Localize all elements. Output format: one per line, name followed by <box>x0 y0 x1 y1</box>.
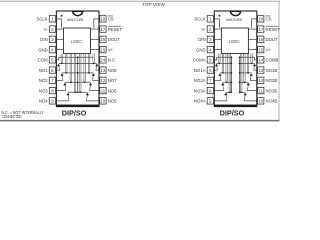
wire: SCLK (pin 1) into logic block <box>214 19 219 28</box>
pin 1 box (SCLK, left side of U1) <box>49 16 55 22</box>
wire: GND (pin 4) stub into logic block <box>56 49 63 51</box>
svg-text:CS: CS <box>266 17 272 22</box>
package U1 thick bottom edge <box>56 105 100 107</box>
IC package U2 MAX350 body outline <box>214 11 256 105</box>
svg-text:10: 10 <box>101 99 106 104</box>
wire: pin stub NO4 <box>56 100 69 102</box>
package U2 thick bottom edge <box>214 105 257 107</box>
svg-text:NO7: NO7 <box>108 78 117 83</box>
svg-text:TOP VIEW: TOP VIEW <box>142 2 165 8</box>
switch arrowhead (triangle) NO1B <box>253 64 256 67</box>
svg-text:12: 12 <box>101 78 106 83</box>
figure top border rule <box>0 0 280 2</box>
switch arrowhead (triangle) NO6 <box>89 83 92 86</box>
svg-text:14: 14 <box>101 58 106 63</box>
wire: DIN (pin 3) stub into logic block <box>214 38 221 40</box>
pin 9 box (NO4A, left side of U2) <box>207 98 213 104</box>
wire: pin stub NO1 <box>56 69 59 71</box>
wire: switch output rail row 2 (NO2/NO7) <box>62 72 93 74</box>
figure right border rule <box>278 1 280 121</box>
switch arm NO4B <box>244 95 245 101</box>
svg-text:NO5: NO5 <box>108 99 117 104</box>
svg-text:NO3B: NO3B <box>266 88 278 93</box>
svg-text:CONNECTED: CONNECTED <box>1 114 21 119</box>
svg-text:DIN: DIN <box>40 37 47 42</box>
switch arm NO2A <box>220 75 221 80</box>
svg-text:V-: V- <box>44 27 49 32</box>
wire: pin stub NO1B <box>254 69 257 71</box>
switch arm NO1A <box>217 66 218 70</box>
svg-text:NO3: NO3 <box>39 88 48 93</box>
pin 16 box (DOUT, right side of U2) <box>258 36 264 42</box>
switch arrowhead (triangle) NO3A <box>221 83 224 86</box>
pin 18 box (CS, right side of U1) <box>100 16 106 22</box>
pin 15 box (V+, right side of U1) <box>100 46 106 52</box>
wire: pin stub NO3B <box>247 90 256 92</box>
pin 11 box (NO6, right side of U1) <box>100 87 106 93</box>
svg-text:DOUT: DOUT <box>266 37 279 42</box>
switch arm NO3A <box>223 85 224 91</box>
svg-text:15: 15 <box>101 47 106 52</box>
svg-text:NO2B: NO2B <box>266 78 278 83</box>
svg-text:DOUT: DOUT <box>108 37 121 42</box>
svg-text:18: 18 <box>258 17 263 22</box>
svg-text:17: 17 <box>258 27 263 32</box>
wire: DOUT stub into logic block <box>248 38 256 40</box>
switch arrowhead (triangle) NO3B <box>247 83 250 86</box>
svg-text:V+: V+ <box>108 47 114 52</box>
wire: switch rail row 4 side B (NO4B) <box>240 91 246 93</box>
logic block of U2 <box>221 28 248 54</box>
svg-text:NO8: NO8 <box>108 68 117 73</box>
pin 7 box (NO2, left side of U1) <box>49 77 55 83</box>
package U2 top notch (pin-1 end indicator) <box>231 11 241 15</box>
svg-text:SCLK: SCLK <box>194 17 205 22</box>
junction dots <box>219 56 253 93</box>
switch arrowhead (triangle) NO1A <box>215 64 218 67</box>
pin 13 box (NO8, right side of U1) <box>100 67 106 73</box>
pin 14 box (N.C., right side of U1) <box>100 57 106 63</box>
wire: V- (pin 2) stub into logic block <box>214 28 221 30</box>
pin 4 box (GND, left side of U2) <box>207 46 213 52</box>
switch arm NO4A <box>226 95 227 101</box>
svg-text:DIP/SO: DIP/SO <box>220 110 245 117</box>
pin 7 box (NO2A, left side of U2) <box>207 77 213 83</box>
switch arm NO2B <box>250 75 251 80</box>
switch arm NO3 <box>65 85 66 91</box>
svg-text:V-: V- <box>202 27 207 32</box>
switch arrowhead (triangle) NO2A <box>218 73 221 76</box>
svg-text:NO1A: NO1A <box>194 68 206 73</box>
wire: pin stub NO2 <box>56 79 63 81</box>
svg-text:NO4A: NO4A <box>194 99 206 104</box>
svg-text:11: 11 <box>259 88 264 93</box>
switch arrowhead (triangle) NO3 <box>63 83 66 86</box>
pin 18 box (CS, right side of U2) <box>258 16 264 22</box>
pin 14 box (COMB, right side of U2) <box>258 57 264 63</box>
svg-text:RESET: RESET <box>266 27 281 32</box>
wire: COMB (pin 14) to bus B <box>240 57 257 60</box>
svg-text:NO2A: NO2A <box>194 78 206 83</box>
logic block of U1 <box>64 28 91 54</box>
wire: switch rail row 3 side A (NO3A) <box>223 81 232 83</box>
switch arm NO4 <box>68 95 69 101</box>
overbar for active-low pin CS <box>108 15 113 17</box>
switch arrowhead (triangle) NO8 <box>95 64 98 67</box>
wire: pin stub NO2B <box>250 79 257 81</box>
pin 5 box (COMA, left side of U2) <box>207 57 213 63</box>
wire: bus B vertical collector line <box>239 57 241 92</box>
svg-text:COMB: COMB <box>266 58 279 63</box>
wire: SCLK (pin 1) into logic block <box>56 19 61 28</box>
svg-text:16: 16 <box>101 37 106 42</box>
switch arm NO7 <box>92 75 93 80</box>
switch arrowhead (triangle) NO1 <box>57 64 60 67</box>
control lines from logic block to switches <box>219 54 253 93</box>
wire: pin stub NO4A <box>214 100 227 102</box>
wire: pin stub NO5 <box>86 100 99 102</box>
svg-text:11: 11 <box>101 88 106 93</box>
svg-text:14: 14 <box>258 58 263 63</box>
svg-text:NO1: NO1 <box>39 68 48 73</box>
pin 6 box (NO1, left side of U1) <box>49 67 55 73</box>
wire: CS (pin 18) into logic block <box>252 19 257 28</box>
svg-text:NO6: NO6 <box>108 88 117 93</box>
svg-text:COM: COM <box>38 58 48 63</box>
svg-text:N.C.: N.C. <box>108 58 117 63</box>
switch arrowhead (triangle) NO2B <box>250 73 253 76</box>
wire: switch rail row 1 side A (NO1A) <box>217 62 232 64</box>
wire: pin stub NO6 <box>90 90 100 92</box>
pin 17 box (RESET, right side of U1) <box>100 26 106 32</box>
svg-text:17: 17 <box>101 27 106 32</box>
wire: V+ stub into logic block <box>91 49 100 51</box>
wire: DIN (pin 3) stub into logic block <box>56 38 63 40</box>
pin 4 box (GND, left side of U1) <box>49 46 55 52</box>
wire: V+ stub into logic block <box>248 49 256 51</box>
svg-text:GND: GND <box>38 47 48 52</box>
svg-text:GND: GND <box>196 47 206 52</box>
wire: pin stub NO3A <box>214 90 224 92</box>
switch arrowhead (triangle) NO4A <box>224 93 227 96</box>
wire: COMA (pin 5) to bus A <box>214 57 231 60</box>
switch arm NO1 <box>59 66 60 70</box>
wire: RESET stub into logic block <box>248 28 256 30</box>
wire: switch output rail row 1 (NO1/NO8) <box>59 62 97 64</box>
wire: switch output rail row 4 (NO4/NO5) <box>68 91 87 93</box>
svg-text:15: 15 <box>258 47 263 52</box>
svg-text:NO4B: NO4B <box>266 99 278 104</box>
svg-text:MAX350: MAX350 <box>226 17 243 22</box>
pin 5 box (COM, left side of U1) <box>49 57 55 63</box>
pin 1 box (SCLK, left side of U2) <box>207 16 213 22</box>
svg-text:18: 18 <box>101 17 106 22</box>
svg-text:SCLK: SCLK <box>36 17 47 22</box>
pin 8 box (NO3A, left side of U2) <box>207 87 213 93</box>
pin 13 box (NO1B, right side of U2) <box>258 67 264 73</box>
control lines from logic block to switches <box>61 54 94 93</box>
wire: pin stub NO3 <box>56 90 66 92</box>
IC package U1 MAX349 body outline <box>56 11 99 105</box>
svg-text:RESET: RESET <box>108 27 123 32</box>
wire: switch output rail row 3 (NO3/NO6) <box>65 81 91 83</box>
svg-text:NO2: NO2 <box>39 78 48 83</box>
svg-text:CS: CS <box>108 17 114 22</box>
switch arrowhead (triangle) NO2 <box>60 73 63 76</box>
wire: DOUT stub into logic block <box>91 38 100 40</box>
switch arm NO3B <box>247 85 248 91</box>
pin 10 box (NO4B, right side of U2) <box>258 98 264 104</box>
pin 16 box (DOUT, right side of U1) <box>100 36 106 42</box>
pin 11 box (NO3B, right side of U2) <box>258 87 264 93</box>
wire: switch rail row 2 side A (NO2A) <box>220 72 232 74</box>
package U1 top notch (pin-1 end indicator) <box>73 11 83 15</box>
junction dots <box>61 56 94 93</box>
svg-text:COMA: COMA <box>193 58 206 63</box>
wire: pin stub NO8 <box>96 69 99 71</box>
overbar for active-low pin RESET <box>108 25 121 27</box>
switch arm NO8 <box>96 66 97 70</box>
svg-text:13: 13 <box>258 68 263 73</box>
pin 8 box (NO3, left side of U1) <box>49 87 55 93</box>
svg-text:LOGIC: LOGIC <box>71 39 82 44</box>
pin 17 box (RESET, right side of U2) <box>258 26 264 32</box>
switch arrowhead (triangle) NO7 <box>92 73 95 76</box>
overbar for active-low pin CS <box>266 15 271 17</box>
wire: V- (pin 2) stub into logic block <box>56 28 63 30</box>
wire: switch rail row 1 side B (NO1B) <box>240 62 255 64</box>
wire: CS (pin 18) into logic block <box>94 19 99 28</box>
svg-text:16: 16 <box>258 37 263 42</box>
wire: switch rail row 2 side B (NO2B) <box>240 72 252 74</box>
pin 12 box (NO7, right side of U1) <box>100 77 106 83</box>
pin 10 box (NO5, right side of U1) <box>100 98 106 104</box>
switch arm NO1B <box>254 66 255 70</box>
svg-text:V+: V+ <box>266 47 272 52</box>
switch arrowhead (triangle) NO4 <box>66 93 69 96</box>
wire: bus A vertical collector line <box>230 57 232 92</box>
wire: pin stub NO2A <box>214 79 221 81</box>
package U2 pin-1 dot marker <box>219 15 221 17</box>
switch arm NO6 <box>90 85 91 91</box>
wire: GND (pin 4) stub into logic block <box>214 49 221 51</box>
pin 2 box (V-, left side of U1) <box>49 26 55 32</box>
wire: pin stub NO1A <box>214 69 217 71</box>
figure bottom border rule <box>0 120 280 122</box>
switch arm NO2 <box>62 75 63 80</box>
pin 6 box (NO1A, left side of U2) <box>207 67 213 73</box>
overbar for active-low pin RESET <box>266 25 279 27</box>
svg-text:10: 10 <box>258 99 263 104</box>
pin 2 box (V-, left side of U2) <box>207 26 213 32</box>
svg-text:12: 12 <box>258 78 263 83</box>
svg-text:MAX349: MAX349 <box>67 17 84 22</box>
wire: COM (pin 5) to internal common bus <box>56 57 93 60</box>
svg-text:DIP/SO: DIP/SO <box>62 110 87 117</box>
svg-text:NO1B: NO1B <box>266 68 278 73</box>
switch arrowhead (triangle) NO5 <box>86 93 89 96</box>
wire: RESET stub into logic block <box>91 28 100 30</box>
pin 3 box (DIN, left side of U1) <box>49 36 55 42</box>
package U1 pin-1 dot marker <box>61 15 63 17</box>
svg-text:LOGIC: LOGIC <box>229 39 240 44</box>
wire: switch rail row 4 side A (NO4A) <box>226 91 232 93</box>
wire: switch rail row 3 side B (NO3B) <box>240 81 249 83</box>
pin 12 box (NO2B, right side of U2) <box>258 77 264 83</box>
pin 15 box (V+, right side of U2) <box>258 46 264 52</box>
wire: common vertical collector line <box>77 57 79 92</box>
pin 9 box (NO4, left side of U1) <box>49 98 55 104</box>
wire: pin stub NO7 <box>92 79 99 81</box>
svg-text:NO4: NO4 <box>39 99 48 104</box>
pin 3 box (DIN, left side of U2) <box>207 36 213 42</box>
switch arrowhead (triangle) NO4B <box>244 93 247 96</box>
svg-text:DIN: DIN <box>198 37 205 42</box>
svg-text:NO3A: NO3A <box>194 88 206 93</box>
switch arm NO5 <box>86 95 87 101</box>
wire: pin stub NO4B <box>244 100 257 102</box>
svg-text:13: 13 <box>101 68 106 73</box>
